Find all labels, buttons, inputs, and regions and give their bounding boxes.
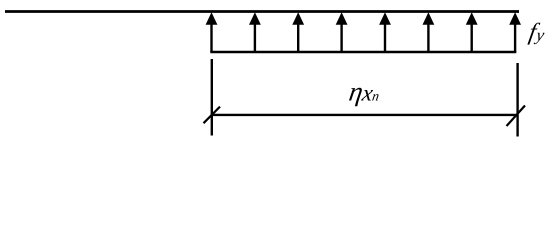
arrow 6 bbox=[423, 12, 435, 52]
top member line bbox=[5, 10, 519, 13]
dimension line bbox=[212, 114, 518, 116]
arrow 3 bbox=[292, 12, 304, 52]
arrow 2 bbox=[249, 12, 261, 52]
arrow 4 bbox=[336, 12, 348, 52]
right tick slash bbox=[507, 106, 526, 127]
left tick slash bbox=[204, 107, 221, 124]
right extension line bbox=[516, 63, 518, 137]
baseline of distributed load bbox=[210, 51, 516, 53]
arrow 5 bbox=[379, 12, 391, 52]
svg-text:ηxn: ηxn bbox=[347, 77, 382, 107]
svg-text:fy: fy bbox=[527, 18, 548, 45]
arrow 7 bbox=[466, 12, 478, 52]
arrow 1 bbox=[206, 12, 218, 52]
left extension line bbox=[211, 59, 213, 136]
arrow 8 bbox=[509, 12, 521, 52]
